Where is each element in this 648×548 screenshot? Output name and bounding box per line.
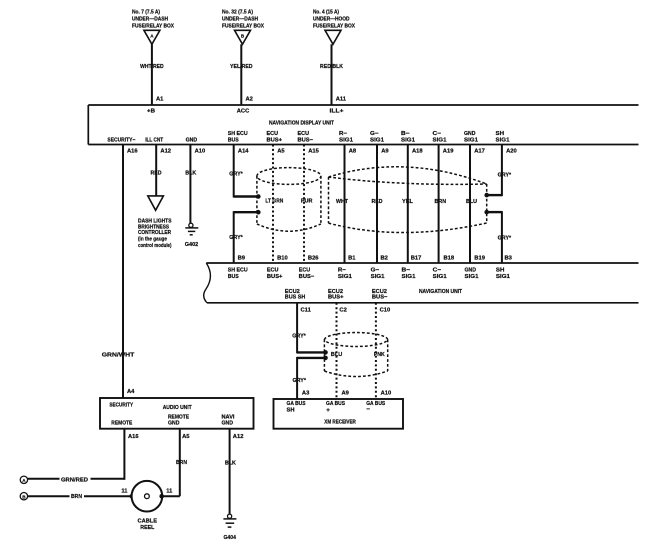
svg-text:B−: B−: [402, 268, 411, 274]
svg-text:A19: A19: [443, 149, 454, 155]
svg-text:No. 4 (15 A): No. 4 (15 A): [313, 10, 339, 16]
svg-text:ECU: ECU: [298, 131, 310, 137]
svg-text:SIG1: SIG1: [402, 274, 416, 280]
svg-text:GRY*: GRY*: [229, 171, 243, 177]
svg-text:+: +: [326, 407, 330, 414]
svg-text:REEL: REEL: [140, 525, 155, 531]
svg-text:UNDER—HOOD: UNDER—HOOD: [313, 17, 350, 23]
wire WHT (R-SIG1 A8 to B1): [336, 145, 348, 264]
wire GRN/WHT (SECURITY- A16 to audio unit A4): [102, 145, 135, 399]
svg-text:ILL CNT: ILL CNT: [145, 137, 163, 143]
svg-text:(in the gauge: (in the gauge: [138, 237, 167, 243]
svg-text:G402: G402: [185, 242, 199, 248]
svg-text:A15: A15: [308, 149, 319, 155]
svg-text:A14: A14: [238, 149, 249, 155]
svg-text:GRY*: GRY*: [498, 173, 512, 179]
shield cylinder around ECU bus pair: [257, 168, 321, 232]
connector B: [20, 493, 27, 500]
svg-text:LT GRN: LT GRN: [265, 199, 283, 205]
svg-text:SIG1: SIG1: [465, 274, 479, 280]
wire RED (G-SIG1 A9 to B2): [372, 145, 383, 264]
svg-text:B17: B17: [411, 255, 422, 261]
svg-text:AUDIO UNIT: AUDIO UNIT: [163, 405, 193, 411]
svg-text:A16: A16: [127, 149, 138, 155]
navigation display unit box: [88, 105, 638, 145]
svg-text:SIG1: SIG1: [433, 137, 447, 143]
wire RED (ILL CNT A12): [151, 145, 162, 196]
svg-text:GRY*: GRY*: [292, 334, 306, 340]
cable reel: [132, 481, 163, 531]
wire YEL/RED to pin A2 (ACC): [230, 44, 253, 114]
svg-text:BLK: BLK: [225, 461, 237, 467]
wire BRN (cable reel pin 11 to audio unit A5): [159, 429, 187, 499]
svg-text:A12: A12: [233, 434, 244, 440]
svg-text:A4: A4: [127, 389, 135, 395]
svg-text:FUSE/RELAY BOX: FUSE/RELAY BOX: [222, 24, 264, 30]
svg-text:GND: GND: [465, 268, 477, 274]
svg-text:A5: A5: [182, 434, 190, 440]
wire BLK (NAVI GND A12 to ground G404): [225, 429, 237, 515]
wire LT GRN (ECU BUS+ A5 to B10, dotted): [265, 145, 283, 264]
svg-text:B10: B10: [277, 255, 288, 261]
svg-text:A9: A9: [381, 149, 389, 155]
svg-text:G−: G−: [371, 268, 380, 274]
svg-text:RED: RED: [372, 199, 383, 205]
svg-text:A16: A16: [128, 434, 139, 440]
wire WHT/RED to pin A1 (+B): [140, 44, 164, 114]
svg-text:G−: G−: [370, 131, 379, 137]
svg-text:PUR: PUR: [301, 199, 313, 205]
svg-text:SIG1: SIG1: [464, 137, 478, 143]
wire GRY* shield drain (SH ECU BUS A14 to B9): [229, 145, 260, 264]
svg-text:CABLE: CABLE: [138, 518, 158, 524]
svg-text:A10: A10: [195, 149, 206, 155]
svg-text:G404: G404: [223, 535, 236, 541]
svg-text:B19: B19: [474, 255, 485, 261]
svg-text:BUS: BUS: [228, 137, 239, 143]
svg-text:C2: C2: [339, 308, 346, 314]
fuse C (No.4 15A under-hood fuse/relay box): [313, 10, 355, 45]
svg-text:A2: A2: [246, 96, 253, 102]
navigation unit pin numbers (C row): [301, 308, 391, 314]
svg-text:SH: SH: [287, 407, 295, 413]
svg-text:B26: B26: [308, 255, 319, 261]
svg-text:FUSE/RELAY BOX: FUSE/RELAY BOX: [132, 24, 174, 30]
svg-text:GND: GND: [222, 420, 234, 426]
navigation unit pin numbers (B row): [238, 255, 513, 261]
svg-text:SIG1: SIG1: [496, 274, 510, 280]
svg-text:SIG1: SIG1: [433, 274, 447, 280]
svg-text:GND: GND: [168, 420, 180, 426]
svg-text:ACC: ACC: [237, 108, 250, 114]
svg-text:SIG1: SIG1: [338, 274, 352, 280]
fuse A (No.7 7.5A under-dash fuse/relay box): [132, 10, 174, 45]
svg-text:R−: R−: [339, 131, 348, 137]
svg-text:WHT/RED: WHT/RED: [140, 64, 164, 70]
svg-text:BUS−: BUS−: [299, 274, 315, 280]
svg-text:C11: C11: [301, 308, 312, 314]
svg-text:A17: A17: [474, 149, 485, 155]
svg-text:SH: SH: [496, 268, 505, 274]
svg-text:A1: A1: [156, 96, 164, 102]
svg-text:UNDER—DASH: UNDER—DASH: [132, 17, 168, 23]
svg-text:BUS−: BUS−: [372, 295, 388, 301]
svg-text:A8: A8: [349, 149, 357, 155]
svg-text:SIG1: SIG1: [371, 274, 385, 280]
svg-text:BUS SH: BUS SH: [285, 295, 306, 301]
svg-text:A10: A10: [381, 390, 392, 396]
wire BLU (ECU2 BUS+ C2 to A9, dotted): [331, 303, 343, 399]
svg-text:BUS−: BUS−: [298, 137, 314, 143]
svg-text:SH ECU: SH ECU: [228, 131, 248, 137]
ground G402: [185, 223, 199, 248]
svg-text:SECURITY: SECURITY: [109, 403, 133, 409]
navigation display unit pin name labels: [107, 131, 509, 143]
svg-text:CONTROLLER: CONTROLLER: [138, 230, 171, 236]
connector A: [20, 476, 27, 483]
svg-text:PNK: PNK: [374, 352, 386, 358]
svg-text:SIG1: SIG1: [370, 137, 384, 143]
XM receiver pin numbers: [302, 390, 391, 396]
wire BLK (GND A10): [185, 145, 197, 224]
svg-text:WHT: WHT: [336, 199, 348, 205]
svg-text:NAVIGATION UNIT: NAVIGATION UNIT: [419, 289, 463, 295]
svg-text:A3: A3: [302, 390, 310, 396]
svg-text:BLK: BLK: [185, 170, 197, 176]
svg-text:+B: +B: [147, 108, 155, 114]
svg-text:C10: C10: [380, 308, 391, 314]
svg-text:RED/BLK: RED/BLK: [320, 64, 344, 70]
svg-text:FUSE/RELAY BOX: FUSE/RELAY BOX: [313, 24, 355, 30]
svg-text:SECURITY−: SECURITY−: [107, 137, 136, 143]
svg-text:SIG1: SIG1: [401, 137, 415, 143]
svg-text:ECU: ECU: [299, 268, 311, 274]
svg-text:BRN: BRN: [176, 460, 187, 466]
svg-text:A9: A9: [342, 390, 350, 396]
svg-text:GRN/RED: GRN/RED: [61, 478, 88, 484]
wire PNK (ECU2 BUS- C10 to A10, dotted): [374, 303, 386, 399]
svg-text:SIG1: SIG1: [339, 137, 353, 143]
wire YEL (B-SIG1 A18 to B17): [402, 145, 413, 264]
svg-text:R−: R−: [338, 268, 347, 274]
svg-text:BLU: BLU: [466, 199, 477, 205]
shield cylinder around RGB signal bundle: [329, 167, 487, 233]
svg-text:−: −: [366, 406, 370, 413]
svg-text:A11: A11: [336, 96, 347, 102]
svg-text:A12: A12: [160, 149, 171, 155]
svg-text:B2: B2: [381, 255, 388, 261]
svg-text:SH: SH: [496, 131, 505, 137]
wire PUR (ECU BUS- A15 to B26, dotted): [301, 145, 313, 264]
audio unit box: [100, 389, 254, 440]
wire GRY* shield drain (ECU2 BUS SH C11 to A3): [292, 303, 328, 399]
svg-text:B−: B−: [401, 131, 410, 137]
wire BLU (GND SIG1 A17 to B19): [466, 145, 477, 264]
svg-text:C−: C−: [433, 131, 442, 137]
wire RED/BLK to pin A11 (ILL+): [320, 44, 347, 114]
svg-text:C−: C−: [433, 268, 442, 274]
shield cylinder around ECU2 bus pair: [324, 333, 387, 377]
svg-text:GND: GND: [186, 137, 198, 143]
svg-text:REMOTE: REMOTE: [111, 420, 132, 426]
svg-text:B3: B3: [505, 255, 513, 261]
svg-text:XM RECEIVER: XM RECEIVER: [324, 420, 356, 426]
wire BRN (connector B to cable reel pin 11): [28, 488, 135, 500]
navigation display unit pin numbers: [127, 149, 517, 155]
svg-text:B18: B18: [444, 255, 455, 261]
wire BRN (C-SIG1 A19 to B18): [435, 145, 447, 264]
svg-text:A18: A18: [412, 149, 423, 155]
svg-text:GRY*: GRY*: [498, 236, 512, 242]
wire GRN/RED (REMOTE A16 to connector A): [28, 429, 125, 484]
navigation unit pin name labels row 2 (ECU2): [285, 289, 388, 301]
dash lights brightness controller (triangle symbol): [138, 196, 172, 249]
svg-text:BUS: BUS: [228, 274, 239, 280]
svg-text:YEL: YEL: [402, 199, 413, 205]
svg-text:BUS+: BUS+: [328, 295, 344, 301]
svg-text:B9: B9: [238, 255, 246, 261]
svg-text:GRY*: GRY*: [292, 378, 306, 384]
svg-text:11: 11: [121, 488, 128, 494]
svg-text:YEL/RED: YEL/RED: [230, 64, 253, 70]
svg-text:A5: A5: [277, 149, 285, 155]
svg-text:ILL+: ILL+: [330, 108, 345, 114]
svg-text:RED: RED: [151, 170, 162, 176]
navigation unit box: [204, 263, 639, 303]
svg-text:control module): control module): [138, 243, 172, 249]
svg-text:ECU: ECU: [267, 131, 279, 137]
svg-text:GND: GND: [464, 131, 476, 137]
fuse B (No.32 7.5A under-dash fuse/relay box): [222, 10, 264, 45]
svg-text:B1: B1: [348, 255, 356, 261]
svg-text:GRN/WHT: GRN/WHT: [102, 353, 135, 359]
navigation unit pin name labels row 1: [228, 268, 510, 280]
svg-text:No. 32 (7.5 A): No. 32 (7.5 A): [222, 10, 253, 16]
svg-text:BRN: BRN: [435, 199, 447, 205]
svg-text:SIG1: SIG1: [496, 137, 510, 143]
svg-text:NAVIGATION DISPLAY UNIT: NAVIGATION DISPLAY UNIT: [269, 121, 335, 127]
svg-text:UNDER—DASH: UNDER—DASH: [222, 17, 258, 23]
XM receiver box: [274, 399, 404, 429]
svg-text:ECU: ECU: [267, 268, 279, 274]
svg-text:BRN: BRN: [71, 494, 82, 500]
svg-text:A20: A20: [506, 149, 517, 155]
svg-text:BLU: BLU: [331, 352, 343, 358]
svg-text:BUS+: BUS+: [267, 274, 283, 280]
svg-text:BUS+: BUS+: [267, 137, 283, 143]
wire GRY* shield drain (SH SIG1 A20 to B3): [484, 145, 511, 264]
ground G404: [223, 514, 236, 541]
svg-text:No. 7 (7.5 A): No. 7 (7.5 A): [132, 10, 160, 16]
svg-text:GRY*: GRY*: [229, 235, 243, 241]
svg-text:GA BUS: GA BUS: [287, 401, 306, 407]
svg-text:11: 11: [166, 488, 173, 494]
svg-text:SH ECU: SH ECU: [228, 268, 248, 274]
